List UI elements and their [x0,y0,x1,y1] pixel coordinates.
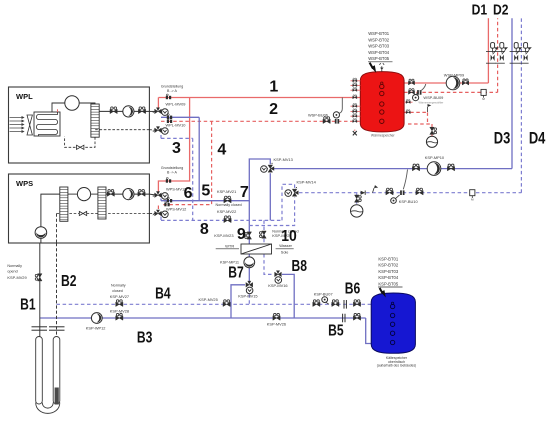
svg-text:KSP-BU10: KSP-BU10 [399,199,419,204]
svg-text:WSP-BT02: WSP-BT02 [368,37,390,42]
svg-text:KSP-BT01: KSP-BT01 [378,256,398,261]
compressor pipe WPS 2 [91,193,98,195]
WPL supply pipe to box edge [99,110,149,112]
cold storage tank KSP Kaeltespeicher [371,293,415,353]
sensor WSP-BU06 [339,98,342,114]
sensor circle KSP-BU10 [391,198,397,204]
condenser WPL [91,104,99,137]
valve expansion line WSP [430,127,437,134]
circulation pump WPL [123,106,134,117]
sensor KSP-BU07 [326,302,329,304]
union on WPS hot supply [166,178,171,183]
vent flag WSP lower right [428,104,432,112]
valve KSP-MV29 [35,274,42,281]
svg-text:B6: B6 [345,280,361,297]
svg-text:9: 9 [237,226,246,243]
pipe 2 hot return dashed [161,120,360,122]
pump KSP-MP11 [244,257,255,268]
pipe B4 dashed cold return [57,303,372,305]
valve KSP-MV13 [261,163,275,172]
pipe stub WPS box to MV12 dashed [149,213,157,215]
vent flag on D4 line [373,185,379,194]
svg-text:5: 5 [201,183,210,200]
air flow arrows [10,116,25,133]
svg-text:KSP-BT03: KSP-BT03 [378,269,398,274]
valve D4 line 1 [386,188,393,195]
sensor circle WSP-BU06 [333,112,339,118]
pipe riser to KSP-MV13 [249,159,270,244]
svg-text:Grundstellung: Grundstellung [161,166,183,170]
svg-text:KSP-MV27: KSP-MV27 [110,294,129,299]
valve set D3 [510,43,523,64]
WPS supply pipe to box edge [106,193,149,195]
svg-text:WSP-BT04: WSP-BT04 [368,50,390,55]
svg-text:B7: B7 [228,265,244,282]
svg-text:B -> A: B -> A [167,171,177,175]
valve KSP-MV26 [273,313,280,320]
svg-text:B1: B1 [20,297,36,314]
flange B3 [343,314,345,323]
label KSP-MV29 [7,264,26,280]
svg-text:KSP-BT02: KSP-BT02 [378,263,398,268]
sensor KSP-BU10 link [396,195,400,199]
svg-text:KSP-MP11: KSP-MP11 [220,259,239,264]
valve set D1 [486,43,499,64]
pipe D1 riser [487,18,489,83]
pipe WTR water side down [248,254,250,282]
pipe B1 borehole supply [39,243,41,337]
labels WSP-BT01-05 [368,31,393,62]
pipe KSP-MV13 to pump KSP-MP10 [273,168,513,170]
fitting on D4 line [400,190,404,195]
svg-text:WSP-BU09: WSP-BU09 [423,95,443,100]
flange borehole right [49,327,65,330]
pipe B2 borehole return dashed [56,243,58,337]
valve KSP-MV27 [116,300,123,307]
valve KSP-MV14 [285,187,299,196]
pipe stub WPL-MV09 riser [157,98,159,108]
sensor circle WSP-BU09 [413,95,419,101]
motor valve box on D2 line [481,89,486,101]
circulation pump WPS [123,189,134,200]
pipe WPL-MV09 bypass blue [161,117,199,200]
valve after pump WSP-MP09 [462,79,468,85]
expansion vessel KSP [351,205,363,217]
svg-text:WTR: WTR [225,244,234,249]
tank ports WSP left [351,78,361,123]
compressor WPL [65,96,79,110]
pipe KSP-MV14 to D4 dashed [299,192,521,194]
brine pipe dashed WPS [57,214,150,244]
valve KSP-MV23 [245,232,252,239]
svg-text:WPS-MV12: WPS-MV12 [166,206,186,211]
svg-text:(außerhalb des Gebäudes): (außerhalb des Gebäudes) [377,364,416,368]
WPL return pipe dashed [65,130,150,148]
pipe 5 WPS bypass header [161,199,249,201]
svg-text:D3: D3 [494,129,511,147]
brine pump WPS [35,227,47,239]
compressor pipe WPS [68,193,78,195]
flange borehole left [32,327,48,330]
valve expansion line KSP [355,195,362,202]
svg-text:Wärmemengenzähler: Wärmemengenzähler [419,100,444,104]
svg-text:KSP-BT05: KSP-BT05 [378,281,398,286]
valve WPL outlet 2 [138,107,145,114]
svg-text:KSP-BT04: KSP-BT04 [378,275,398,280]
pipe KSP-MV14 bottom link dashed [249,197,294,225]
evaporator WPS [60,187,68,221]
pipe KSP-MV13 bottom leg [269,173,271,220]
refrigerant pipe coil to compressor [52,103,65,112]
svg-text:2: 2 [269,101,278,118]
union on pipe 4 [164,201,169,206]
pipe KSP-MV15 drop dashed [248,294,250,304]
valve KSP-MV28 [116,313,123,320]
pipe KSP-MV14 loop dashed [282,184,295,220]
drain valve under tank WSP [353,130,357,136]
svg-text:Normally: Normally [7,264,22,268]
valve KSP-MV15 [246,281,253,294]
svg-text:D4: D4 [529,129,546,147]
valve set D4 [519,43,532,64]
valve KSP-MV21 [224,196,231,203]
pipe B3 cold main [40,317,366,319]
brine supply pipe WPS [41,194,60,243]
svg-text:B -> A: B -> A [167,89,177,93]
svg-text:Grundstellung: Grundstellung [161,84,183,88]
pipe stub WPL box to MV10 dashed [149,129,156,132]
label Kaeltespeicher [377,356,416,368]
expansion vessel stub on D4 line [356,193,358,205]
pipe 8 dashed header [161,217,282,221]
svg-text:KSP-MV25: KSP-MV25 [199,297,218,302]
text Grundstellung WPL [161,84,183,93]
valve B3 line [353,313,360,320]
fitting on return near BU09 [417,90,421,95]
svg-text:Normally closed: Normally closed [216,203,242,207]
svg-text:7: 7 [240,184,249,201]
tank vent WSP [379,63,384,72]
check valve on D4 line [361,191,366,195]
labels KSP-BT01-05 [378,256,403,287]
valve WPS-MV12 [153,210,169,218]
svg-text:KSP-MV23: KSP-MV23 [214,233,233,238]
borehole tube left [36,337,43,405]
pipe stub WPL box to MV09 [149,110,157,112]
svg-text:10: 10 [281,228,297,245]
valve before KSP-MP10 [412,164,419,171]
valve WPS-MV11 [153,191,169,199]
valve set D2 [495,43,508,64]
svg-text:WPL-MV09: WPL-MV09 [166,101,186,106]
storage tank WSP Waermespeicher [360,72,404,132]
valve KSP-MV25 [223,300,230,307]
svg-text:KSP-MV14: KSP-MV14 [297,179,317,184]
borehole tube right [53,337,60,405]
valve B4 line 1 [313,300,320,307]
label KSP-MV24 [272,230,298,238]
pointer arrow KSP [380,288,386,298]
pipe KSP-MV16 to cold main [282,274,294,318]
pipe KSP-MV24 branch dashed [263,220,265,244]
pipe WTR brine side down dashed [264,254,273,274]
valve KSP-MV22 [224,216,231,223]
expansion vessel WSP [426,136,437,147]
text Grundstellung WPS [161,166,183,175]
condenser WPS [98,187,106,219]
svg-text:Wärmespeicher: Wärmespeicher [371,133,396,137]
label normally closed MV22 [216,203,242,214]
pump WSP-MP09 [446,76,460,90]
expansion valve WPL [77,145,84,149]
svg-text:KSP-MV13: KSP-MV13 [274,157,293,162]
svg-text:4: 4 [217,141,226,158]
pipe storage right return dashed [404,91,498,93]
pipe D2 riser dashed [497,18,499,92]
label WTR [216,244,239,249]
svg-text:WSP-BT05: WSP-BT05 [368,56,390,61]
valve D4 line 2 [416,188,423,195]
svg-text:KSP-MV28: KSP-MV28 [110,309,129,314]
pump KSP-MP10 [427,162,441,176]
WPL heat pump unit enclosure [9,87,150,163]
refrigerant pipe compressor to condenser [79,103,95,104]
svg-text:WSP-BT01: WSP-BT01 [368,31,390,36]
svg-text:B2: B2 [61,273,77,290]
WPS heat pump unit enclosure [9,174,150,243]
svg-text:B5: B5 [328,322,344,339]
svg-text:closed: closed [112,289,123,293]
union on bypass blue [167,114,172,119]
svg-text:Normally: Normally [111,284,126,288]
svg-text:WPL: WPL [16,92,33,101]
svg-text:opend: opend [7,269,17,273]
svg-text:WPS: WPS [16,179,33,188]
valve on pipe 2 near tank [323,117,330,124]
motor valve box KSP-BU10 tap [403,170,407,190]
valve KSP-MV16 [275,271,282,284]
union on WPS bypass header [167,197,172,202]
svg-text:1: 1 [269,78,278,95]
valve WPL-MV09 [153,108,169,116]
pipe storage to pump WSP-MP09 [404,82,488,84]
svg-text:D1: D1 [472,3,488,19]
fitting WSP-BU06 on pipe 2 [335,119,339,124]
valve B4 line 2 [332,300,339,307]
compressor WPS [77,188,90,201]
pipe 3 dashed from WPL-MV10 [161,135,193,220]
pipe stub WPS box to MV11 [149,194,157,195]
pipe KSP-MV15 to cold main [231,285,245,318]
svg-text:KSP-MV16: KSP-MV16 [268,283,287,288]
svg-text:KSP-MV26: KSP-MV26 [267,321,286,326]
pointer arrow WSP [370,63,377,73]
pipe storage lower right dashed [404,112,432,136]
union on pipe 2 [167,118,172,123]
flange B4 [344,300,346,309]
svg-text:KSP-MV15: KSP-MV15 [238,294,257,299]
svg-text:8: 8 [200,221,209,238]
heat exchanger WTR [241,244,272,254]
union on pipe 1 [166,94,171,99]
pipe 4 dashed branch [158,121,211,209]
pipe cold main to tank bottom [366,318,372,344]
label KSP-MV27 [110,284,129,300]
svg-text:Sole: Sole [281,250,289,254]
pipe D3 riser blue [511,18,513,168]
valve WPL outlet [110,107,117,114]
pump KSP-WP12 [91,313,102,324]
svg-text:6: 6 [184,185,193,202]
label WSP-BU09 [419,95,444,104]
svg-text:KSP-MV21: KSP-MV21 [217,189,236,194]
valve after KSP-MP10 [447,164,454,171]
pipe 1 hot supply WPL to storage [158,97,360,99]
valve KSP-MV24 [259,231,266,238]
svg-text:KSP-BU07: KSP-BU07 [314,292,333,297]
fan [27,115,32,135]
svg-text:WSP-BT03: WSP-BT03 [368,44,390,49]
svg-text:3: 3 [172,140,181,157]
svg-text:KSP-WP12: KSP-WP12 [86,326,106,331]
svg-text:D2: D2 [493,3,509,19]
valve B4 line 3 [353,300,360,307]
svg-text:KSP-MV22: KSP-MV22 [217,209,236,214]
svg-text:KSP-MV29: KSP-MV29 [7,275,26,280]
svg-text:B8: B8 [291,258,307,275]
svg-text:WPL-MV10: WPL-MV10 [166,123,187,128]
valve WPL-MV10 [153,126,169,134]
svg-text:WSP-MP09: WSP-MP09 [444,72,464,77]
valve WPS outlet 2 [138,190,145,197]
svg-text:KSP-MP10: KSP-MP10 [425,155,445,160]
pipe WPS hot supply riser [158,98,189,192]
motor valve box on D4 line [470,190,475,202]
pipe D4 riser dashed [520,18,522,193]
borehole label block [55,388,59,405]
svg-text:B4: B4 [155,285,171,302]
evaporator coil WPL [34,109,60,136]
tank ports WSP right [404,79,414,114]
sensor circle KSP-BU07 [322,297,328,303]
sensor WSP-BU09 tap [416,84,426,95]
valve WPS outlet [107,190,114,197]
borehole u-bend [36,403,60,414]
expansion valve WPS [79,211,86,215]
label Wasser Sole [276,244,294,254]
svg-text:B3: B3 [137,330,153,347]
